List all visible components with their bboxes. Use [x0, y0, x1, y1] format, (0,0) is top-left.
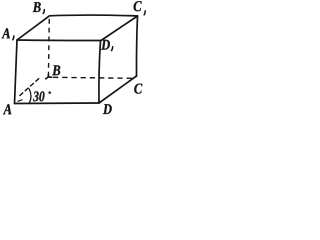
edge D1-C1	[101, 16, 138, 41]
edge D-D1	[99, 41, 101, 103]
angle arc at A	[29, 89, 31, 103]
hidden edge A-B	[20, 77, 41, 96]
edge A1-D1	[17, 39, 101, 42]
vertex label A1 letter	[2, 28, 10, 38]
vertex label A1 subscript	[13, 36, 14, 40]
vertex label A	[3, 104, 11, 114]
vertex label B1 letter	[33, 2, 41, 12]
angle arc tail stroke	[18, 100, 23, 102]
edge A-D	[15, 102, 100, 105]
edge A-A1	[15, 40, 18, 104]
edge C-C1	[136, 16, 137, 76]
vertex label C1 letter	[134, 1, 142, 11]
vertex label D1 letter	[101, 40, 110, 50]
vertex label C1 subscript	[144, 11, 145, 15]
vertex label B	[52, 65, 60, 75]
angle value 30	[33, 91, 44, 101]
angle value degree sign	[48, 91, 51, 94]
hidden edge B-C	[53, 77, 133, 78]
vertex label B1 subscript	[43, 10, 44, 14]
hidden edge B1-B	[47, 18, 50, 77]
edge B1-C1	[50, 14, 138, 17]
edge D-C	[99, 76, 137, 103]
vertex B junction mark	[45, 74, 52, 79]
vertex label C	[134, 84, 142, 94]
edge A1-B1	[17, 16, 50, 40]
vertex label D	[103, 104, 112, 114]
vertex label D1 subscript	[112, 47, 113, 51]
